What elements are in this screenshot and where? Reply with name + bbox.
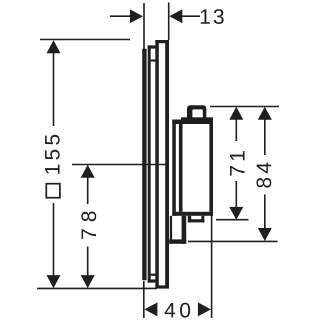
label 84	[256, 163, 271, 188]
arrow 78 bottom	[81, 275, 95, 288]
dim line 78	[87, 176, 89, 204]
arrow 84 top	[258, 107, 272, 120]
bracket B bottom flange	[148, 279, 158, 282]
label 13	[201, 9, 224, 24]
notch left wall	[188, 216, 191, 223]
dim line 71	[235, 117, 237, 141]
bracket B bottom divider	[151, 274, 158, 276]
ext line 78 top	[72, 164, 167, 166]
ext line 40 right	[211, 212, 213, 319]
bracket B top flange	[148, 45, 158, 48]
ext line bottom 155/78	[37, 287, 157, 289]
label 40	[165, 303, 191, 318]
handle bottom band	[172, 212, 213, 216]
plate back bracket B vertical	[148, 45, 151, 282]
lower bracket right wall	[182, 216, 187, 244]
label square 155	[45, 135, 60, 174]
handle top band	[181, 117, 213, 124]
arrow 155 top	[47, 40, 61, 53]
label 78	[81, 211, 96, 238]
arrow 84 bottom	[258, 228, 272, 241]
handle left edge	[179, 124, 183, 212]
bracket B top divider	[151, 59, 158, 61]
arrow 40 left	[144, 302, 157, 316]
arrow 155 bottom	[47, 275, 61, 288]
ext line top right (71/84)	[210, 106, 279, 108]
dim line 84	[264, 117, 266, 155]
dim 13 left line	[110, 15, 132, 17]
ext line 71 bottom	[216, 219, 249, 221]
ext line 13 left	[143, 3, 145, 50]
square symbol of label 155	[46, 184, 60, 198]
notch bottom	[188, 219, 205, 222]
arrow 71 top	[229, 107, 243, 120]
handle right edge	[209, 124, 213, 212]
lower bracket bottom	[169, 239, 186, 243]
wall bar C	[142, 49, 146, 280]
handle top band left step	[172, 120, 181, 125]
notch right wall	[201, 216, 204, 223]
arrow 71 bottom	[229, 207, 243, 220]
label 71	[230, 151, 244, 175]
handle sleeve bar	[172, 120, 176, 216]
lower bracket left wall	[170, 216, 172, 244]
dim 13 right line	[180, 15, 200, 17]
ext line 84 bottom	[188, 240, 278, 242]
ext line top 155	[40, 39, 130, 41]
button	[187, 105, 206, 122]
arrow 40 right	[198, 302, 211, 316]
ext line 40 left	[143, 281, 145, 318]
arrow 78 top	[81, 165, 95, 178]
arrow 13 left	[130, 9, 143, 23]
escutcheon plate A	[155, 40, 169, 289]
ext line 13 right	[168, 3, 170, 41]
dim line 155	[53, 50, 55, 126]
arrow 13 right	[169, 9, 182, 23]
